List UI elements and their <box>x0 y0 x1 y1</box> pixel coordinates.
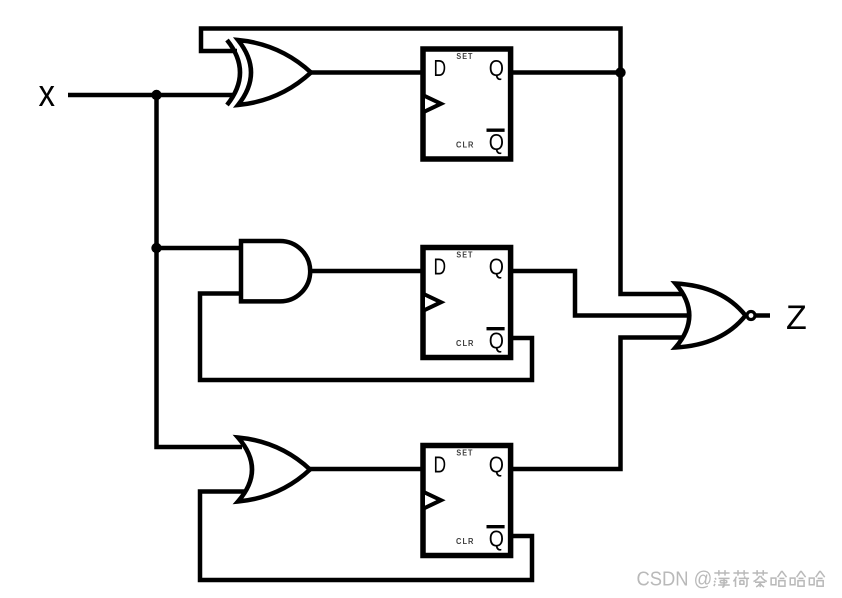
wire: XOR output to FF1 D <box>310 70 423 75</box>
node A: junction x / XOR input <box>151 90 161 100</box>
glyph bo <box>714 570 730 587</box>
svg-text:Q: Q <box>489 55 504 81</box>
svg-text:Q: Q <box>489 254 504 280</box>
svg-text:D: D <box>434 452 447 478</box>
svg-text:CSDN @: CSDN @ <box>637 569 713 591</box>
wire: FF3 Qbar feedback to OR lower input <box>200 492 532 581</box>
flip-flop FF1 <box>423 49 511 159</box>
wire: NOR output stub to Z <box>756 313 770 318</box>
nor gate U4 <box>676 284 756 348</box>
wire: AND output to FF2 D <box>310 269 423 274</box>
svg-text:Q: Q <box>489 328 504 354</box>
glyph ha2 <box>790 571 805 586</box>
wire: OR output to FF3 D <box>309 467 423 472</box>
wire: FF3 Q up to NOR lower input <box>512 338 690 470</box>
svg-text:SET: SET <box>456 449 473 458</box>
glyph he <box>733 570 749 587</box>
glyph cha <box>753 570 768 587</box>
svg-text:D: D <box>434 55 447 81</box>
svg-text:D: D <box>434 254 447 280</box>
wire: FF1 Q to node, feedback to XOR upper input <box>201 29 621 73</box>
glyph ha3 <box>809 571 824 586</box>
or gate U3 <box>238 438 310 502</box>
svg-text:SET: SET <box>456 251 473 260</box>
glyph ha1 <box>771 571 786 586</box>
wire: node down to NOR upper input <box>621 73 691 295</box>
wire: FF2 Qbar feedback to AND lower input <box>200 294 532 381</box>
wire: branch to AND gate upper input <box>157 246 242 251</box>
watermark CSDN @... <box>637 569 825 591</box>
flip-flop FF3 <box>423 446 511 556</box>
and gate U2 <box>241 241 310 301</box>
svg-text:Z: Z <box>786 299 807 337</box>
svg-text:SET: SET <box>456 52 473 61</box>
node B: junction x / AND input <box>151 243 161 253</box>
flip-flop FF2 <box>423 248 511 358</box>
svg-text:x: x <box>39 73 56 115</box>
node C: junction FF1 Q / feedback / NOR input <box>615 67 625 77</box>
wire: x vertical bus down to OR gate upper input <box>157 95 243 447</box>
svg-text:CLR: CLR <box>456 537 475 546</box>
svg-text:Q: Q <box>489 452 504 478</box>
svg-text:Q: Q <box>489 129 504 155</box>
wire: FF2 Q to NOR middle input <box>512 271 690 316</box>
wire: input x to XOR lower input <box>68 93 234 98</box>
xor gate U1 <box>227 40 311 105</box>
svg-text:Q: Q <box>489 526 504 552</box>
svg-text:CLR: CLR <box>456 339 475 348</box>
svg-text:CLR: CLR <box>456 141 475 150</box>
